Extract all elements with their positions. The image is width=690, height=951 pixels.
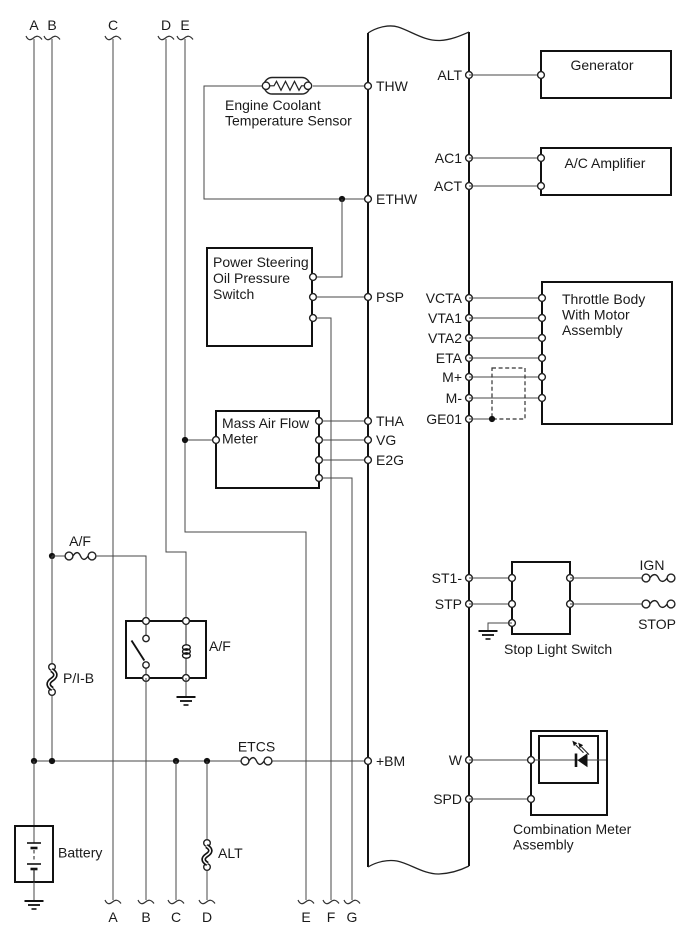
wire PSP (316, 296, 368, 298)
pin PSP (365, 289, 404, 305)
svg-text:VCTA: VCTA (426, 290, 463, 306)
pin GE01 (426, 411, 472, 427)
wire C vertical full (112, 39, 114, 900)
svg-text:VTA2: VTA2 (428, 330, 462, 346)
svg-text:A/F: A/F (209, 638, 231, 654)
svg-text:Stop Light Switch: Stop Light Switch (504, 641, 612, 657)
svg-text:M+: M+ (442, 369, 462, 385)
svg-text:ETHW: ETHW (376, 191, 418, 207)
battery feed (33, 761, 35, 843)
ECU connector body (torn-edge vertical band) (368, 26, 469, 874)
svg-text:A/F: A/F (69, 533, 91, 549)
svg-text:ETA: ETA (436, 350, 463, 366)
svg-text:Temperature Sensor: Temperature Sensor (225, 113, 352, 129)
relay A/F box (126, 621, 206, 678)
wire GE01 shield drain (469, 418, 492, 420)
svg-text:ST1-: ST1- (432, 570, 463, 586)
pin ACT (434, 178, 472, 194)
wire AC1 (469, 157, 541, 159)
pin +BM (365, 753, 406, 769)
wire relay switch to bottom B (145, 678, 147, 900)
wire bottom C from bus (175, 761, 177, 900)
fusible link P/I-B (49, 664, 94, 696)
svg-text:Oil Pressure: Oil Pressure (213, 270, 290, 286)
pin ETA (436, 350, 473, 366)
label: Engine Coolant Temperature Sensor (225, 97, 352, 129)
wire switch body to ground (488, 623, 512, 631)
wire ETHW branch down to PSP switch (316, 199, 342, 277)
node D (top) (158, 17, 174, 40)
node A (top) (26, 17, 42, 40)
svg-text:Mass Air Flow: Mass Air Flow (222, 415, 310, 431)
wire D below ALT link (206, 871, 208, 900)
junction GE01/shield (489, 416, 495, 422)
svg-text:P/I-B: P/I-B (63, 670, 94, 686)
label Combination Meter Assembly (513, 821, 632, 853)
wire ALT to generator (469, 74, 541, 76)
wire SPD (469, 798, 531, 800)
wire D to relay coil (166, 39, 186, 621)
battery (15, 826, 102, 882)
shield (dashed) around motor wires (492, 368, 525, 419)
wire THA (322, 420, 368, 422)
terminal STOP (638, 600, 676, 632)
pin E2G (365, 452, 404, 468)
svg-text:A: A (108, 909, 118, 925)
node F (bottom) (323, 900, 339, 925)
pin SPD (433, 791, 472, 807)
node A (bottom) (105, 900, 121, 925)
wire coil to ground (185, 678, 187, 697)
svg-text:Engine Coolant: Engine Coolant (225, 97, 321, 113)
pin VG (365, 432, 397, 448)
box: Mass Air Flow Meter (216, 411, 319, 488)
relay pins (143, 618, 150, 625)
ground (relay coil) (177, 696, 196, 698)
wire E2G (322, 459, 368, 461)
wire W (469, 759, 531, 761)
svg-text:ALT: ALT (437, 67, 462, 83)
svg-text:A/C Amplifier: A/C Amplifier (565, 155, 646, 171)
junction on wire E (182, 437, 188, 443)
wire THW loop (313, 85, 368, 87)
wire B mid segment (51, 556, 53, 663)
terminal IGN (640, 557, 675, 582)
ground (stop light switch) (479, 630, 498, 632)
svg-text:D: D (202, 909, 212, 925)
svg-text:C: C (171, 909, 181, 925)
relay coil (183, 621, 191, 678)
svg-text:Assembly: Assembly (513, 837, 574, 853)
ground (battery) (25, 900, 44, 902)
pin ETHW (365, 191, 418, 207)
svg-text:ACT: ACT (434, 178, 462, 194)
pin M+ (442, 369, 472, 385)
svg-text:IGN: IGN (640, 557, 665, 573)
svg-text:Combination Meter: Combination Meter (513, 821, 632, 837)
svg-text:Switch: Switch (213, 286, 254, 302)
node C (bottom) (168, 900, 184, 925)
wire B lower segment (51, 696, 53, 761)
bus junctions (31, 758, 37, 764)
svg-text:M-: M- (446, 390, 463, 406)
svg-text:+BM: +BM (376, 753, 405, 769)
pin THW (365, 78, 409, 94)
svg-text:Generator: Generator (570, 57, 633, 73)
fuse A/F (65, 533, 96, 560)
wire E vertical + jog to bottom E (185, 39, 306, 900)
wire +B bus (34, 760, 241, 762)
box: Combination Meter Assembly (531, 731, 607, 815)
svg-text:With Motor: With Motor (562, 307, 630, 323)
node E (bottom) (298, 900, 314, 925)
svg-text:ALT: ALT (218, 845, 243, 861)
svg-text:GE01: GE01 (426, 411, 462, 427)
svg-text:Assembly: Assembly (562, 322, 623, 338)
relay switch contact (132, 621, 150, 678)
wire ST1- (469, 577, 512, 579)
meter box pins (528, 757, 535, 764)
wire VCTA to throttle body (469, 297, 542, 299)
svg-text:THA: THA (376, 413, 405, 429)
node C (top) (105, 17, 121, 40)
indicator LED (572, 741, 589, 768)
svg-text:A: A (29, 17, 39, 33)
wire G from MAF to bottom (322, 478, 352, 900)
wire M- to throttle body (469, 397, 542, 399)
wire B top segment (51, 39, 53, 556)
svg-text:Battery: Battery (58, 845, 102, 861)
svg-text:THW: THW (376, 78, 409, 94)
pin VTA1 (428, 310, 472, 326)
box: Throttle Body With Motor Assembly (539, 282, 672, 424)
svg-text:W: W (449, 752, 463, 768)
pin VCTA (426, 290, 473, 306)
pin W (449, 752, 473, 768)
svg-text:C: C (108, 17, 118, 33)
PSP box pins (310, 274, 317, 281)
wire VTA2 to throttle body (469, 337, 542, 339)
svg-text:E2G: E2G (376, 452, 404, 468)
wire M+ to throttle body (469, 376, 542, 378)
wire to IGN (570, 577, 642, 579)
box: Stop Light Switch (509, 562, 574, 634)
svg-text:STOP: STOP (638, 616, 676, 632)
svg-text:E: E (180, 17, 189, 33)
junction wire B / AF fuse (49, 553, 55, 559)
wire VTA1 to throttle body (469, 317, 542, 319)
svg-text:AC1: AC1 (435, 150, 462, 166)
wire to A/F fuse (52, 555, 66, 557)
pin ALT (437, 67, 472, 83)
svg-text:B: B (141, 909, 150, 925)
wire battery to ground (33, 882, 35, 901)
svg-text:G: G (347, 909, 358, 925)
wire A vertical (33, 39, 35, 761)
svg-text:VG: VG (376, 432, 396, 448)
svg-text:Throttle Body: Throttle Body (562, 291, 645, 307)
pin VTA2 (428, 330, 472, 346)
svg-text:B: B (47, 17, 56, 33)
node B (bottom) (138, 900, 154, 925)
wire fuse to relay switch (96, 556, 146, 621)
switch box: Power Steering Oil Pressure Switch (207, 248, 312, 346)
svg-text:Power Steering: Power Steering (213, 254, 309, 270)
pin THA (365, 413, 405, 429)
pin ST1- (432, 570, 473, 586)
node B (top) (44, 17, 60, 40)
svg-text:Meter: Meter (222, 431, 258, 447)
pin AC1 (435, 150, 473, 166)
MAF pins (213, 437, 220, 444)
svg-text:ETCS: ETCS (238, 739, 275, 755)
wire F from PSP box to bottom (316, 318, 331, 900)
wire MAF supply from wire E (185, 439, 216, 441)
box: A/C Amplifier (538, 148, 671, 195)
svg-text:PSP: PSP (376, 289, 404, 305)
node E (top) (177, 17, 193, 40)
svg-text:VTA1: VTA1 (428, 310, 462, 326)
wire through indicator lamp (531, 759, 606, 761)
pin M- (446, 390, 473, 406)
svg-text:SPD: SPD (433, 791, 462, 807)
node G (bottom) (344, 900, 360, 925)
resistor: engine coolant temp sensor element (262, 78, 311, 95)
wire STP (469, 603, 512, 605)
svg-text:STP: STP (435, 596, 462, 612)
wire VG (322, 439, 368, 441)
box: Generator (538, 51, 671, 98)
pin STP (435, 596, 473, 612)
wire to STOP (570, 603, 642, 605)
junction on ETHW line (339, 196, 345, 202)
fuse ETCS (238, 739, 275, 765)
wire ETA to throttle body (469, 357, 542, 359)
svg-text:E: E (301, 909, 310, 925)
wire bottom D from bus (206, 761, 208, 839)
node D (bottom) (199, 900, 215, 925)
svg-text:F: F (327, 909, 336, 925)
svg-text:D: D (161, 17, 171, 33)
fusible link ALT (204, 840, 243, 871)
wire ACT (469, 185, 541, 187)
